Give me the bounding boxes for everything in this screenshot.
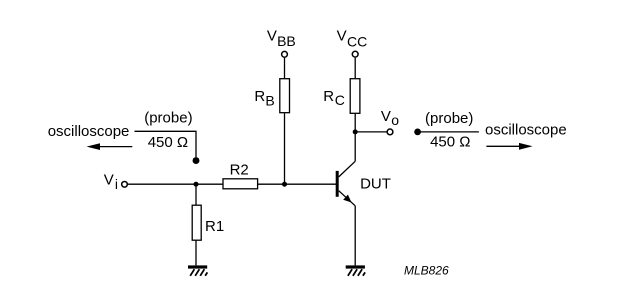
wire: Vi to node A <box>128 183 196 185</box>
node B: junction base/RB <box>282 182 287 187</box>
resistor R1 <box>192 205 201 240</box>
wire: node C down to collector <box>354 132 356 161</box>
resistor R2 <box>223 179 258 189</box>
resistor RC <box>350 79 360 114</box>
wire: emitter down to ground <box>354 206 356 266</box>
base bar <box>336 171 339 197</box>
node: right probe contact dot <box>414 129 421 136</box>
wire: VBB to RB <box>284 58 286 78</box>
svg-text:oscilloscope: oscilloscope <box>48 123 130 140</box>
terminal: Vi open circle <box>122 181 128 187</box>
wire: RC down to collector node <box>354 114 356 132</box>
svg-text:o: o <box>391 112 399 128</box>
svg-text:Vi: Vi <box>104 172 118 193</box>
wire: right probe line <box>418 131 479 133</box>
wire: R1 to ground <box>195 240 197 265</box>
svg-text:C: C <box>335 92 345 108</box>
svg-text:CC: CC <box>347 33 367 49</box>
wire: left probe line <box>135 131 197 157</box>
svg-text:V: V <box>337 28 347 45</box>
svg-text:(probe): (probe) <box>425 110 473 127</box>
svg-text:450 Ω: 450 Ω <box>148 134 188 151</box>
terminal: VBB open circle <box>282 51 288 57</box>
svg-text:R: R <box>254 88 265 105</box>
wire: node B to base <box>285 183 337 185</box>
svg-text:V: V <box>381 108 391 125</box>
wire: node A to R2 <box>196 183 223 185</box>
svg-text:oscilloscope: oscilloscope <box>485 122 567 139</box>
terminal: Vo open circle <box>387 129 393 135</box>
svg-text:450 Ω: 450 Ω <box>430 133 470 150</box>
transistor DUT (NPN) <box>336 161 356 206</box>
emitter lead <box>339 191 356 206</box>
wire: node A down to R1 <box>195 184 197 205</box>
collector lead <box>339 161 356 177</box>
svg-text:R: R <box>323 88 334 105</box>
ground: under emitter <box>346 265 365 275</box>
emitter arrowhead <box>343 195 351 203</box>
resistor RB <box>280 79 290 113</box>
svg-text:(probe): (probe) <box>144 109 192 126</box>
node C: collector/Vo junction <box>353 129 358 134</box>
svg-text:R1: R1 <box>205 218 224 235</box>
ground: under R1 <box>188 265 207 275</box>
svg-text:BB: BB <box>277 33 296 49</box>
node A: junction Vi/R1/probe <box>194 182 199 187</box>
svg-text:DUT: DUT <box>360 176 391 193</box>
wire: node C to Vo <box>355 131 386 133</box>
arrow: to right oscilloscope <box>486 143 532 150</box>
wire: VCC to RC <box>354 58 356 78</box>
wire: R2 to node B <box>258 183 285 185</box>
wire: RB down to node B <box>284 113 286 184</box>
svg-text:B: B <box>265 92 274 108</box>
node: left probe contact dot <box>193 157 200 164</box>
svg-text:R2: R2 <box>230 162 249 179</box>
terminal: VCC open circle <box>352 51 358 57</box>
arrow: to left oscilloscope <box>87 143 133 150</box>
svg-text:V: V <box>267 28 277 45</box>
svg-text:MLB826: MLB826 <box>404 264 449 278</box>
